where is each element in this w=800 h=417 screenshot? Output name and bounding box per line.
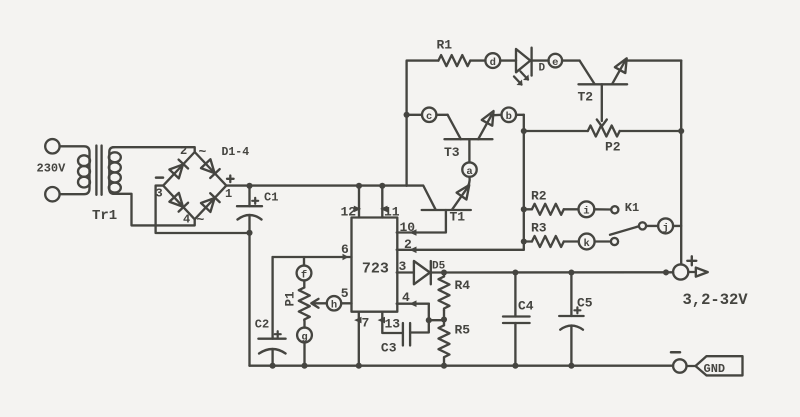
svg-text:P2: P2 — [605, 140, 621, 155]
diode D2 top-right — [201, 159, 220, 178]
wire T3 emitter to node b — [491, 114, 501, 117]
svg-text:h: h — [331, 300, 337, 312]
node dot C1 bottom — [246, 230, 252, 236]
pin 2 wire — [397, 249, 524, 251]
pin 13 stub — [382, 312, 403, 333]
svg-text:GND: GND — [704, 362, 726, 376]
svg-text:4: 4 — [183, 213, 190, 227]
diode D4 bottom-right — [201, 193, 220, 212]
svg-text:i: i — [583, 206, 589, 218]
potentiometer P2 — [524, 130, 588, 132]
wire secondary bottom to bridge node 4 — [113, 194, 195, 226]
svg-text:C2: C2 — [255, 318, 269, 332]
bridge rectifier D1-4 diamond — [163, 152, 226, 219]
resistor R3 — [524, 240, 532, 242]
wire e to T2 collector — [562, 59, 580, 61]
wire c to T3 collector — [436, 114, 447, 116]
resistor R2 — [524, 208, 532, 210]
wire d to LED — [500, 59, 516, 61]
node dot rail C2 — [270, 363, 276, 369]
transformer core — [95, 146, 97, 195]
node f — [303, 257, 305, 266]
svg-text:12: 12 — [341, 205, 357, 220]
transistor T3 — [445, 138, 493, 140]
output arrow — [688, 271, 696, 273]
label bridge minus — [156, 176, 163, 179]
node k — [579, 234, 595, 250]
svg-text:10: 10 — [400, 220, 416, 235]
pin 7 stub to 0V rail — [358, 312, 360, 366]
sense column wire — [523, 115, 525, 250]
node h — [327, 296, 341, 310]
svg-text:11: 11 — [384, 205, 400, 220]
node c — [422, 108, 436, 122]
svg-text:3: 3 — [156, 187, 163, 201]
node dot rail R5 — [441, 363, 447, 369]
transformer Tr1 secondary — [109, 147, 114, 194]
svg-text:T2: T2 — [578, 89, 594, 104]
pin 3 wire — [397, 271, 414, 273]
svg-text:C4: C4 — [518, 298, 534, 313]
svg-text:R1: R1 — [437, 38, 453, 53]
capacitor C4 — [514, 273, 516, 317]
output terminal + — [673, 264, 688, 279]
svg-text:b: b — [506, 111, 512, 123]
capacitor C2 — [271, 257, 273, 339]
svg-text:C5: C5 — [577, 295, 593, 310]
pin 10 wire to T1 base — [397, 210, 446, 233]
wire contact to node j — [646, 225, 658, 227]
node dot C5 top — [568, 269, 574, 275]
resistor R4 — [443, 273, 445, 277]
diode D5 — [414, 261, 430, 284]
node dot rail C4 — [512, 363, 518, 369]
node dot R4 R5 — [441, 316, 447, 322]
node dot rail g — [301, 363, 307, 369]
wire R1 riser — [407, 61, 439, 186]
contact circle K1 common — [639, 222, 646, 229]
svg-text:723: 723 — [362, 261, 389, 278]
svg-text:2: 2 — [180, 144, 187, 158]
svg-text:P1: P1 — [283, 291, 297, 306]
node i — [579, 201, 595, 217]
output + row wire — [444, 271, 673, 274]
wire b to sense column — [516, 114, 524, 116]
svg-text:j: j — [662, 222, 668, 234]
switch arm K1 — [610, 226, 639, 235]
pin 11 stub — [381, 186, 383, 218]
ground terminal — [673, 359, 686, 372]
svg-text:1: 1 — [225, 187, 232, 201]
T3 base wire to node a — [468, 139, 470, 162]
node d — [485, 53, 500, 68]
svg-text:6: 6 — [341, 242, 349, 257]
svg-text:R3: R3 — [531, 221, 547, 236]
contact circle K1 top — [611, 206, 618, 213]
node dot C3 riser — [426, 317, 432, 323]
0V bottom rail — [250, 365, 674, 367]
svg-text:k: k — [584, 238, 590, 250]
node dot output — [663, 269, 669, 275]
wire LED to node e — [532, 59, 549, 61]
wire C2 top to pin 6 — [273, 256, 352, 258]
svg-text:C1: C1 — [264, 191, 278, 205]
svg-text:Tr1: Tr1 — [92, 208, 117, 224]
node dot rail C5 — [568, 363, 574, 369]
node a — [462, 162, 476, 176]
wire a to T1 emitter — [466, 177, 469, 190]
resistor R5 — [439, 325, 450, 365]
wire R1 to node d — [470, 59, 485, 61]
terminal 230V top — [45, 139, 59, 153]
terminal 230V bottom — [45, 187, 59, 201]
node dot D5 R4 — [441, 269, 447, 275]
transistor T1 — [422, 209, 471, 211]
op-amp U1 voltage regulator 723 box — [352, 218, 398, 312]
svg-text:c: c — [426, 111, 432, 123]
T2 emitter wire to + output rail — [625, 59, 681, 61]
contact circle K1 bottom — [611, 238, 618, 245]
svg-text:3,2-32V: 3,2-32V — [683, 291, 749, 309]
label bridge plus — [227, 176, 234, 183]
svg-text:C3: C3 — [381, 341, 397, 356]
svg-text:D: D — [539, 62, 546, 74]
node dot rail C1 — [246, 183, 252, 189]
wire k to contact — [595, 240, 611, 242]
svg-text:~: ~ — [199, 145, 207, 160]
T2 base wire to P2 wiper — [601, 84, 603, 121]
svg-text:7: 7 — [362, 316, 370, 331]
svg-text:e: e — [552, 57, 558, 69]
svg-text:3: 3 — [399, 259, 407, 274]
svg-text:d: d — [490, 57, 496, 69]
node e — [549, 54, 563, 68]
wire j to + rail — [673, 225, 681, 227]
transistor T2 — [579, 83, 628, 85]
capacitor C1 — [248, 186, 250, 206]
node dot rail pin12 — [356, 183, 362, 189]
svg-text:2: 2 — [404, 237, 412, 252]
svg-text:4: 4 — [402, 290, 410, 305]
ground tag GND — [696, 356, 743, 375]
svg-text:R2: R2 — [531, 189, 547, 204]
pin 6 arrow — [343, 254, 349, 260]
svg-text:T1: T1 — [450, 210, 466, 225]
wire C1 down to 0V rail — [248, 233, 250, 366]
svg-text:R4: R4 — [455, 278, 471, 293]
svg-text:230V: 230V — [37, 162, 67, 176]
node b — [502, 108, 517, 123]
P1 wiper arrow from node h — [313, 302, 327, 304]
diode D1 top-left — [169, 160, 188, 179]
node dot P2 rail — [678, 128, 684, 134]
wire D5 to R4 — [431, 271, 444, 273]
node c wire — [404, 112, 410, 118]
node g — [303, 321, 305, 328]
potentiometer P1 — [303, 280, 305, 287]
wire secondary top to bridge node 2 — [113, 147, 195, 152]
svg-text:5: 5 — [341, 286, 349, 301]
svg-text:T3: T3 — [444, 145, 460, 160]
svg-text:K1: K1 — [625, 201, 639, 215]
wire bridge node 3 to C1 bottom rail — [156, 186, 250, 233]
wire h to pin 5 — [341, 302, 351, 304]
capacitor C3 — [402, 323, 404, 346]
node j — [658, 218, 673, 233]
pin 4 wire — [397, 303, 429, 305]
node dot rail pin11 — [379, 183, 385, 189]
wire g to 0V rail — [303, 342, 305, 365]
svg-text:~: ~ — [197, 213, 205, 228]
node dot rail pin7 — [356, 363, 362, 369]
capacitor C5 — [570, 273, 572, 317]
diode D3 bottom-left — [169, 193, 188, 212]
wire C3 riser to R4/R5 junction — [429, 319, 444, 321]
resistor R1 — [438, 55, 470, 66]
LED D — [516, 49, 530, 72]
transformer Tr1 primary — [60, 146, 90, 194]
+ output right rail — [680, 61, 682, 265]
wire i to contact — [594, 208, 611, 211]
wire ground to tag — [687, 365, 696, 367]
node dot C4 top — [512, 269, 518, 275]
pin 12 stub — [358, 186, 360, 218]
svg-text:D1-4: D1-4 — [222, 146, 250, 159]
wire + rail from bridge to T1 collector — [226, 186, 435, 210]
svg-text:R5: R5 — [455, 323, 471, 338]
svg-text:13: 13 — [385, 317, 401, 332]
